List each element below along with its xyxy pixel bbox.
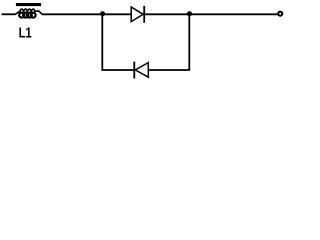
wire diode D1 cathode to node B xyxy=(144,13,277,15)
inductor L1 coil loop 2 xyxy=(23,13,28,18)
node B junction dot xyxy=(187,11,192,16)
wire node A down to bottom branch xyxy=(101,14,103,70)
inductor L1 core bar xyxy=(16,3,41,6)
svg-text:L1: L1 xyxy=(19,24,33,41)
diode D2 triangle (pointing left) xyxy=(135,63,148,78)
node A junction dot xyxy=(100,11,105,16)
inductor L1 coil loop 4 xyxy=(31,13,36,18)
diode D1 triangle (anode, pointing right) xyxy=(131,7,143,22)
inductor L1 coil loop 1 xyxy=(19,13,24,18)
diode D1 cathode bar xyxy=(143,6,145,23)
wire inductor to diode D1 anode (through node A) xyxy=(42,13,131,15)
diode D2 cathode bar xyxy=(133,62,135,79)
inductor L1 coil top run with turn bumps xyxy=(15,9,42,14)
wire left lead into inductor xyxy=(2,13,16,15)
inductor L1 coil loop 3 xyxy=(27,13,32,18)
wire diode D2 anode to right vertical xyxy=(148,69,190,71)
terminal (open circle output) xyxy=(278,12,282,16)
wire bottom left segment to diode D2 cathode xyxy=(101,69,134,71)
wire node B down to bottom branch xyxy=(188,14,190,70)
